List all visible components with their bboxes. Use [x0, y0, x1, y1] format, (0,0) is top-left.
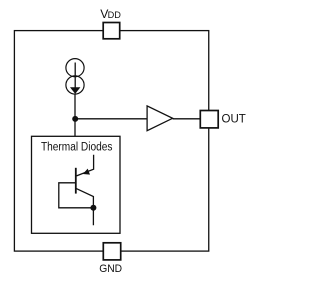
current source arrowhead [70, 87, 80, 94]
svg-text:DD: DD [108, 10, 122, 20]
buffer amplifier [147, 106, 173, 131]
pad OUT [200, 111, 218, 128]
current source I1 [66, 59, 84, 95]
pad VDD [103, 23, 120, 39]
wire buffer to OUT pad [173, 118, 200, 120]
collector lead [76, 188, 94, 225]
junction dot base-collector [90, 205, 96, 211]
pad GND [103, 243, 120, 260]
emitter lead [77, 155, 94, 176]
Thermal Diodes box [32, 136, 121, 233]
base-collector tie wire [59, 183, 94, 208]
wire node to buffer [75, 118, 147, 120]
base bar [75, 168, 77, 194]
IC boundary box [14, 31, 208, 252]
emitter arrowhead [83, 169, 90, 175]
transistor Q1 (diode-connected PNP) [59, 155, 94, 225]
svg-text:GND: GND [99, 263, 122, 276]
svg-text:Thermal Diodes: Thermal Diodes [41, 141, 113, 154]
node junction dot [72, 116, 78, 122]
wire current source to thermal box [74, 94, 76, 136]
svg-text:OUT: OUT [222, 111, 247, 125]
